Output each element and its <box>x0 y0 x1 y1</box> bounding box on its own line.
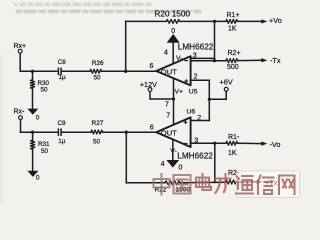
wire R2- to +Tx arrow <box>238 181 257 183</box>
resistor R26 <box>90 69 102 73</box>
wire +6V branch <box>209 91 226 99</box>
wire R26 to U5 output <box>102 70 156 72</box>
svg-text:R1+: R1+ <box>227 12 240 19</box>
terminal +12V <box>148 88 152 92</box>
U6 pin4 V- stem <box>172 139 174 160</box>
junction node +12V/pin7 <box>172 97 175 100</box>
svg-text:R1-: R1- <box>228 134 240 141</box>
wire U6 pin3 row <box>191 142 226 144</box>
junction node row1/R30 <box>31 70 34 73</box>
wire C8 to R26 <box>62 70 90 72</box>
ghost text row 1 <box>14 2 152 8</box>
svg-text:7: 7 <box>166 113 170 120</box>
svg-text:500: 500 <box>227 64 239 71</box>
char xin <box>258 176 274 195</box>
junction node +6V/pin2 <box>208 98 211 101</box>
svg-text:4: 4 <box>164 50 168 57</box>
wire U5 pin3 stub <box>191 57 215 59</box>
wire pin2 vertical U5-U6 <box>208 80 210 120</box>
svg-text:LMH6622: LMH6622 <box>178 42 214 51</box>
resistor R20 <box>167 19 180 23</box>
char guo <box>174 175 191 194</box>
wire row2 left <box>21 131 57 133</box>
arrow -Vo <box>261 141 267 145</box>
svg-text:OUT: OUT <box>161 129 177 138</box>
svg-text:50: 50 <box>93 139 101 146</box>
svg-text:V-: V- <box>176 55 182 62</box>
wire Rx+ drop <box>19 53 21 71</box>
wire U5 pin2 stub <box>191 79 210 81</box>
svg-text:4: 4 <box>161 161 165 168</box>
svg-text:0: 0 <box>179 165 183 172</box>
svg-text:50: 50 <box>94 75 102 82</box>
terminal Rx+ <box>18 49 22 53</box>
watermark white box <box>237 171 300 197</box>
wire R2+ row <box>191 60 226 62</box>
svg-text:2: 2 <box>197 115 201 122</box>
svg-text:R2+: R2+ <box>228 50 241 57</box>
ghost text row 2 <box>16 9 201 15</box>
junction node row2/R31 <box>31 131 34 134</box>
arrow +Vo <box>261 19 267 23</box>
wire row1 left <box>20 70 57 72</box>
svg-text:1K: 1K <box>228 150 237 157</box>
svg-text:1µ: 1µ <box>58 138 66 145</box>
arrow +Tx <box>257 180 263 184</box>
capacitor C8 <box>58 68 61 74</box>
wire R22 to R2- <box>180 181 226 184</box>
wire feedback right vertical U5 <box>214 21 216 60</box>
char zhong <box>154 174 170 195</box>
svg-text:OUT: OUT <box>161 68 177 77</box>
terminal Rx- <box>19 116 23 120</box>
terminal +6V <box>224 87 228 91</box>
op-amp U6 <box>156 117 190 147</box>
wire R1+ to +Vo arrow <box>238 20 262 22</box>
resistor R31 <box>32 132 34 140</box>
resistor R2+ <box>226 59 238 63</box>
resistor R30 <box>32 71 34 80</box>
plus sign U5 <box>184 79 188 83</box>
svg-text:Rx+: Rx+ <box>14 43 27 50</box>
wire U6 pin2 stub <box>191 120 210 122</box>
svg-text:-Tx: -Tx <box>270 56 281 65</box>
power symbol 0 above U5 <box>168 35 179 43</box>
wire R2+ to -Tx arrow <box>238 59 262 61</box>
svg-text:+Vo: +Vo <box>269 16 282 25</box>
svg-text:6: 6 <box>150 125 154 132</box>
U5 pin4 V- stem <box>172 42 174 63</box>
svg-text:0: 0 <box>171 28 175 35</box>
wire R20 to R1+ <box>180 20 226 22</box>
svg-text:1µ: 1µ <box>59 74 67 81</box>
svg-text:+12V: +12V <box>140 80 157 89</box>
svg-text:50: 50 <box>41 148 49 155</box>
minus sign U6 <box>184 143 188 145</box>
svg-text:R31: R31 <box>38 141 50 148</box>
svg-text:V-: V- <box>170 148 176 155</box>
char dian <box>196 174 211 190</box>
svg-text:6: 6 <box>150 63 154 70</box>
junction node row1/feedback <box>124 70 127 73</box>
char li <box>215 174 231 193</box>
ground 0 below R30 <box>27 109 38 115</box>
svg-text:+6V: +6V <box>220 78 233 87</box>
svg-text:V+: V+ <box>175 88 184 95</box>
left edge faint band <box>0 55 3 205</box>
arrow -Tx <box>261 58 267 62</box>
wire +12V branch <box>150 92 174 100</box>
svg-text:3: 3 <box>194 137 198 144</box>
svg-text:U5: U5 <box>189 88 198 95</box>
watermark 中国电力通信网 <box>154 174 295 195</box>
svg-text:R26: R26 <box>92 60 104 67</box>
junction node R20/R1+ <box>213 20 216 23</box>
svg-text:7: 7 <box>165 102 169 109</box>
wire C9 to R27 <box>62 131 91 133</box>
char tong <box>236 176 253 194</box>
wire feedback left vertical U5 <box>125 21 127 71</box>
svg-text:0: 0 <box>36 115 40 122</box>
op-amp U5 <box>156 56 190 85</box>
svg-text:Rx-: Rx- <box>14 109 26 116</box>
wire bottom row to R22 <box>126 182 165 184</box>
wire Rx- drop <box>20 120 22 133</box>
wire top row to R20 <box>126 20 167 22</box>
svg-text:50: 50 <box>41 87 49 94</box>
capacitor C9 <box>58 129 61 135</box>
svg-text:3: 3 <box>193 53 197 60</box>
power symbol 0 below U6 <box>167 160 178 167</box>
resistor R1+ <box>226 19 238 23</box>
char wang <box>279 176 295 195</box>
svg-text:0: 0 <box>36 175 40 182</box>
junction node pin3/R2+ <box>213 59 216 62</box>
junction node pin3/R1- <box>213 142 216 145</box>
junction node row2/feedback <box>125 131 128 134</box>
resistor R1- <box>226 141 238 145</box>
minus sign U5 <box>184 60 188 62</box>
svg-text:1K: 1K <box>228 26 237 33</box>
svg-text:2: 2 <box>194 73 198 80</box>
svg-text:-Vo: -Vo <box>270 140 281 149</box>
wire pin7 vertical U5-U6 <box>173 79 175 125</box>
ground 0 below R31 <box>27 171 38 177</box>
wire R1- to -Vo arrow <box>238 142 262 144</box>
svg-text:C9: C9 <box>58 120 67 127</box>
resistor R27 <box>91 130 103 134</box>
svg-text:LMH6622: LMH6622 <box>177 151 213 160</box>
svg-text:R20 1500: R20 1500 <box>155 9 191 18</box>
svg-text:U6: U6 <box>187 109 196 116</box>
resistor R22 <box>165 181 180 185</box>
wire feedback left vertical U6 <box>125 132 127 183</box>
wire R27 to U6 output <box>103 131 156 133</box>
svg-text:R27: R27 <box>92 120 104 127</box>
plus sign U6 <box>184 120 188 124</box>
wire feedback right vertical U6 <box>214 143 216 182</box>
svg-text:C8: C8 <box>58 59 67 66</box>
svg-text:v. un rm mv nv mm run: v. un rm mv nv mm run nnv vnn mn vm nnm … <box>14 2 152 8</box>
resistor R2- <box>226 180 239 184</box>
